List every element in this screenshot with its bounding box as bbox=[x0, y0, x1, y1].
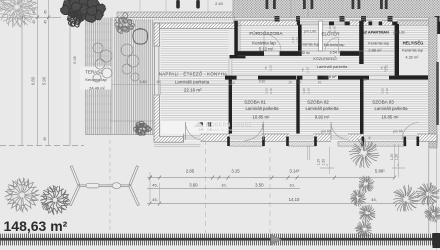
downpipe lines under window B bbox=[308, 145, 310, 160]
corridor wall black segment x338 bbox=[338, 76, 369, 80]
svg-text:24.49 m²: 24.49 m² bbox=[89, 86, 105, 91]
house left wall upper hatch bbox=[154, 23, 160, 46]
svg-text:6.80: 6.80 bbox=[31, 76, 36, 85]
insulation dotted band bbox=[112, 18, 236, 20]
dim tick row1 x212.5 bbox=[211, 176, 214, 180]
svg-text:2,10: 2,10 bbox=[269, 88, 273, 94]
direction triangle bbox=[271, 234, 282, 246]
svg-text:10: 10 bbox=[288, 81, 292, 85]
dandelion column 1 bbox=[349, 139, 380, 168]
svg-text:Laminált parketta: Laminált parketta bbox=[306, 106, 340, 111]
window mark x303 bbox=[303, 0, 306, 9]
site boundary line top-left bbox=[0, 16, 61, 18]
dim tick row1 x334.5 bbox=[333, 176, 336, 180]
watermark logo bbox=[194, 122, 204, 128]
wall jamb x344.6 bbox=[345, 22, 350, 35]
wall jamb x329 bbox=[329, 22, 334, 35]
dim guides vertical right bbox=[330, 144, 399, 178]
deck apple plant bbox=[133, 28, 148, 44]
svg-text:1,00: 1,00 bbox=[302, 88, 306, 94]
nappali terrace door arc bbox=[186, 122, 204, 140]
deck bottom plant bbox=[134, 121, 152, 135]
dark shrub cluster bbox=[63, 0, 74, 11]
planting circle (127,50) bbox=[121, 44, 133, 56]
south wall opening x331 bbox=[331, 134, 348, 142]
north wall inner hatch segment x349.7 bbox=[350, 21, 372, 26]
ticks on boundary line bbox=[21, 16, 51, 20]
door gap lines x229 y58-77 bbox=[229, 58, 232, 77]
wall nappali/furdoszoba black bbox=[234, 21, 238, 56]
szoba02/03 wall black bbox=[360, 78, 364, 138]
svg-text:=: = bbox=[326, 164, 328, 168]
dim tick row2 x150 bbox=[149, 176, 152, 180]
helyiseg bottom wall black bbox=[397, 75, 429, 79]
svg-text:pm 1,80: pm 1,80 bbox=[393, 31, 405, 35]
south wall jamb x286.2 bbox=[286, 137, 289, 147]
svg-text:3.15: 3.15 bbox=[231, 169, 240, 174]
north exterior wall masonry band bbox=[233, 0, 440, 17]
fence dark line bbox=[0, 238, 440, 241]
terrace tile strips bbox=[86, 18, 112, 135]
svg-text:2.85: 2.85 bbox=[186, 169, 195, 174]
north wall inner hatch segment x233.6 bbox=[234, 21, 297, 26]
corridor floor bbox=[232, 55, 394, 76]
black segment corridor top 1 bbox=[237, 51, 265, 56]
svg-text:1,50: 1,50 bbox=[322, 159, 326, 166]
svg-text:Kerámia lap: Kerámia lap bbox=[368, 40, 389, 45]
svg-text:2,10: 2,10 bbox=[306, 67, 310, 73]
svg-text:1,00: 1,00 bbox=[381, 88, 385, 94]
svg-text:10.85 m²: 10.85 m² bbox=[253, 115, 271, 120]
svg-text:SZOBA 02: SZOBA 02 bbox=[307, 100, 329, 105]
bottom exterior wall hatch bbox=[184, 134, 438, 142]
window mark x384.8 bbox=[385, 0, 388, 9]
svg-text:1,00: 1,00 bbox=[343, 19, 347, 25]
top wall opening lines bbox=[297, 22, 437, 25]
window mark x351.5 bbox=[352, 0, 355, 9]
south wall jamb x416.5 bbox=[417, 137, 420, 147]
szoba01 door arc bbox=[244, 122, 263, 141]
window frame bar x296 bbox=[296, 16, 300, 22]
svg-text:2,10: 2,10 bbox=[383, 66, 387, 72]
deck bottom edge bbox=[86, 134, 155, 136]
svg-text:SZOBA 01: SZOBA 01 bbox=[244, 100, 266, 105]
wall jamb x378.7 bbox=[379, 22, 382, 35]
dim row2 line bbox=[147, 188, 300, 190]
corridor wall black segment x297 bbox=[297, 76, 302, 80]
svg-text:45: 45 bbox=[44, 10, 48, 14]
planting circle (100,64) bbox=[95, 59, 105, 69]
dandelion column 3 bbox=[350, 190, 366, 207]
big tree top-left bbox=[0, 0, 38, 28]
wall jamb x392.4 bbox=[392, 22, 397, 35]
deck shrub 1 bbox=[115, 12, 135, 33]
svg-text:10,: 10, bbox=[221, 183, 226, 188]
svg-text:3.50: 3.50 bbox=[255, 183, 264, 188]
dim tick row3 x433 bbox=[432, 202, 435, 206]
svg-text:1,00: 1,00 bbox=[265, 88, 269, 94]
svg-text:14,10: 14,10 bbox=[289, 197, 300, 202]
dim tick row3 x159.5 bbox=[158, 202, 161, 206]
svg-text:pm 1,80: pm 1,80 bbox=[304, 30, 316, 34]
planting circle (127,69) bbox=[122, 64, 132, 74]
dim tick row2 x288 bbox=[287, 176, 290, 180]
dim row1 line bbox=[147, 177, 395, 179]
house left wall lower hatch (corner) bbox=[154, 95, 184, 142]
left wall window double line bbox=[155, 46, 159, 95]
dandelion right big 1 bbox=[393, 185, 420, 212]
plot line x70 bbox=[69, 0, 71, 146]
svg-text:1,20: 1,20 bbox=[317, 159, 321, 166]
svg-text:2,10: 2,10 bbox=[385, 88, 389, 94]
north wall inner hatch segment x382 bbox=[382, 21, 392, 26]
eloter door arc bbox=[325, 38, 339, 52]
south wall jamb x227.2 bbox=[227, 137, 230, 147]
svg-text:1,20: 1,20 bbox=[390, 154, 394, 161]
svg-text:Kerámia lap: Kerámia lap bbox=[402, 47, 423, 52]
svg-text:Kerámia lap: Kerámia lap bbox=[298, 41, 319, 46]
svg-text:45,: 45, bbox=[371, 197, 376, 202]
window sill 2 bbox=[288, 141, 316, 146]
svg-text:2.SZ APARTMAN: 2.SZ APARTMAN bbox=[359, 31, 389, 35]
svg-text:2,10: 2,10 bbox=[269, 65, 273, 71]
planting circle (98,48) bbox=[93, 43, 103, 53]
svg-text:KÖZLEKEDŐ: KÖZLEKEDŐ bbox=[313, 56, 336, 61]
svg-text:2,10: 2,10 bbox=[291, 37, 295, 43]
wall wc/eloter double bbox=[319, 21, 323, 51]
plot line x37.5 bbox=[37, 0, 39, 146]
svg-text:45,: 45, bbox=[152, 183, 157, 188]
svg-text:1.60 m²: 1.60 m² bbox=[298, 51, 311, 55]
south wall jamb x262.2 bbox=[262, 137, 265, 147]
threshold lines bottom-left bbox=[154, 144, 201, 146]
window sill 1 bbox=[229, 141, 264, 146]
szoba03 floor bbox=[364, 80, 429, 135]
furdoszoba door arc bbox=[264, 34, 281, 51]
wall black bar horizontal y55 bbox=[230, 55, 246, 58]
svg-text:5.12 m²: 5.12 m² bbox=[259, 47, 274, 52]
svg-text:1,50: 1,50 bbox=[395, 154, 399, 161]
dandelion right big 2 bbox=[416, 182, 439, 206]
svg-text:pm 90: pm 90 bbox=[321, 130, 331, 134]
svg-text:pm 90: pm 90 bbox=[393, 130, 403, 134]
szoba03 door arc bbox=[402, 123, 419, 140]
svg-text:2,10: 2,10 bbox=[307, 88, 311, 94]
south wall opening x230 bbox=[230, 134, 262, 142]
planting circle (135,77) bbox=[131, 73, 139, 81]
svg-text:45: 45 bbox=[43, 137, 47, 141]
svg-text:9.05: 9.05 bbox=[72, 55, 77, 64]
svg-text:75: 75 bbox=[264, 66, 268, 70]
window mark x310.5 bbox=[311, 0, 314, 9]
window frame bar x434.5 bbox=[435, 16, 440, 22]
svg-text:Laminált parketta: Laminált parketta bbox=[246, 106, 280, 111]
dim tick row2 x159.5 bbox=[158, 176, 161, 180]
right exterior wall masonry bbox=[429, 17, 437, 148]
svg-text:SZOBA 03: SZOBA 03 bbox=[372, 100, 394, 105]
szoba01 floor bbox=[232, 80, 296, 135]
wall furdo/wc double bbox=[298, 25, 302, 56]
dim tick row1 x150.5 bbox=[149, 176, 152, 180]
deck edge double line bbox=[112, 18, 115, 135]
dim tick row3 x150 bbox=[149, 202, 152, 206]
svg-text:2,40: 2,40 bbox=[328, 26, 332, 32]
deck dim line y84 bbox=[112, 80, 161, 121]
svg-text:45: 45 bbox=[44, 20, 48, 24]
svg-text:Laminált parketta: Laminált parketta bbox=[175, 80, 210, 85]
svg-text:családi ház tervek: családi ház tervek bbox=[209, 128, 235, 132]
dark round bush bbox=[67, 10, 82, 27]
svg-text:HELYISÉG: HELYISÉG bbox=[403, 40, 424, 45]
svg-text:=: = bbox=[397, 164, 399, 168]
plot line x22 bbox=[21, 0, 23, 146]
nappali floor bbox=[161, 30, 229, 135]
wall under top rooms y51-56 bbox=[238, 51, 394, 56]
svg-text:3.40: 3.40 bbox=[140, 80, 147, 84]
dim tick row1 x272 bbox=[271, 176, 274, 180]
svg-text:45: 45 bbox=[32, 20, 36, 24]
svg-text:3.54 m²: 3.54 m² bbox=[329, 49, 343, 54]
szoba02 door arc bbox=[331, 122, 349, 140]
svg-text:1,40: 1,40 bbox=[333, 26, 337, 32]
corridor wall black segment x317.5 bbox=[318, 76, 329, 80]
dim tick row2 x297 bbox=[296, 176, 299, 180]
dim tick row2 x219 bbox=[218, 176, 221, 180]
svg-text:148,63 m²: 148,63 m² bbox=[4, 218, 68, 234]
pergola post 2 bbox=[196, 0, 200, 9]
svg-text:NAPPALI - ÉTKEZŐ - KONYHA: NAPPALI - ÉTKEZŐ - KONYHA bbox=[159, 71, 227, 76]
corridor wall black segment x225 bbox=[225, 76, 237, 80]
right vertical dim line bbox=[436, 135, 438, 250]
top rooms floor strip bbox=[240, 25, 428, 51]
window frame bar x361 bbox=[361, 16, 366, 22]
svg-text:45: 45 bbox=[156, 80, 160, 84]
dim tick row1 x394.5 bbox=[393, 176, 396, 180]
main inner black wall vertical bbox=[229, 78, 232, 137]
svg-text:2,40: 2,40 bbox=[261, 124, 265, 130]
eaves hatch band over deck bbox=[117, 12, 235, 17]
terrace boundary bbox=[85, 0, 87, 135]
svg-text:10: 10 bbox=[228, 81, 232, 85]
nappali door posts bbox=[199, 122, 203, 126]
svg-text:80: 80 bbox=[363, 78, 367, 82]
svg-text:10: 10 bbox=[318, 81, 322, 85]
sun lounger bbox=[69, 166, 139, 206]
deck line y121 bbox=[110, 120, 154, 122]
dandelion column 4 bbox=[359, 205, 375, 222]
svg-text:10: 10 bbox=[298, 81, 302, 85]
wood deck boards bbox=[115, 20, 154, 135]
pergola post 1 bbox=[176, 0, 180, 9]
dim marks above right bbox=[320, 167, 405, 169]
wall eloter/apartman black bbox=[359, 21, 363, 64]
nappali top wall hatch bbox=[154, 23, 235, 29]
dim tick row2 x228 bbox=[227, 176, 230, 180]
svg-text:10,: 10, bbox=[289, 183, 294, 188]
tree ball bottom-left 1 bbox=[5, 178, 40, 213]
window frame bar x387.5 bbox=[388, 16, 393, 22]
svg-text:1,00: 1,00 bbox=[296, 37, 300, 43]
north wall inner hatch segment x397.5 bbox=[398, 21, 437, 26]
svg-text:Kerámia lap: Kerámia lap bbox=[252, 41, 276, 46]
window mark x357.5 bbox=[358, 0, 361, 9]
dashed axis line x110 bbox=[109, 140, 111, 233]
svg-text:2.40: 2.40 bbox=[215, 1, 224, 6]
dandelion column 2 bbox=[359, 176, 375, 193]
south wall jamb x314.2 bbox=[314, 137, 317, 147]
fence comb below bbox=[0, 241, 440, 246]
band grid lines bbox=[291, 0, 308, 17]
corridor wall black segment x258 bbox=[258, 76, 296, 80]
svg-text:2,40: 2,40 bbox=[199, 129, 204, 132]
corridor wall black segment x389 bbox=[389, 76, 428, 80]
svg-text:75: 75 bbox=[301, 68, 305, 72]
svg-text:5.86⁵: 5.86⁵ bbox=[375, 169, 385, 174]
south wall jamb x403.5 bbox=[404, 137, 407, 147]
plot line x48.5 bbox=[48, 0, 50, 146]
svg-text:22.16 m²: 22.16 m² bbox=[184, 87, 202, 92]
dim row3 line bbox=[147, 203, 433, 205]
wall jamb x436.7 bbox=[437, 22, 440, 35]
wall jamb x297 bbox=[297, 22, 300, 35]
szoba02 floor bbox=[300, 80, 360, 135]
window mark x273 bbox=[273, 0, 276, 9]
svg-text:8.86 m²: 8.86 m² bbox=[324, 75, 338, 79]
tree ball bottom-left 2 bbox=[40, 185, 70, 215]
window frame bar x339.5 bbox=[340, 16, 345, 22]
planting circle (107,73) bbox=[102, 68, 112, 78]
svg-text:2.88 m²: 2.88 m² bbox=[368, 48, 382, 53]
dashed axis line x270 bbox=[269, 148, 271, 233]
svg-text:45: 45 bbox=[368, 136, 372, 140]
south wall opening x289 bbox=[289, 134, 314, 142]
south wall jamb x361.5 bbox=[362, 137, 365, 147]
svg-text:45,: 45, bbox=[152, 197, 157, 202]
fence comb above bbox=[0, 234, 440, 238]
svg-text:10.85 m²: 10.85 m² bbox=[382, 115, 400, 120]
corridor bottom wall base lines bbox=[225, 76, 436, 80]
dashed setback line horizontal bbox=[0, 145, 84, 147]
fence corner block bbox=[433, 233, 440, 248]
window mark x265.5 bbox=[266, 0, 269, 9]
planting circle (97,78) bbox=[93, 74, 101, 82]
svg-text:3.14⁵: 3.14⁵ bbox=[289, 169, 299, 174]
svg-text:3.60: 3.60 bbox=[189, 183, 198, 188]
svg-text:9.50: 9.50 bbox=[259, 80, 266, 84]
south wall opening x364 bbox=[364, 134, 417, 142]
window frame bar x274.5 bbox=[275, 16, 280, 22]
svg-text:FÜRDŐSZOBA: FÜRDŐSZOBA bbox=[249, 30, 283, 37]
svg-text:Laminált parketta: Laminált parketta bbox=[317, 64, 348, 69]
dashed axis line x205 bbox=[205, 140, 207, 233]
black segment corridor top 2 bbox=[280, 51, 299, 56]
wall apartman/helyiseg black bbox=[395, 24, 399, 78]
top dim guides bbox=[140, 0, 233, 12]
svg-text:Kerámia lap: Kerámia lap bbox=[324, 42, 345, 47]
svg-text:Kerámia lap: Kerámia lap bbox=[85, 77, 107, 82]
svg-text:4.32 m²: 4.32 m² bbox=[405, 55, 419, 60]
svg-text:TERASZ: TERASZ bbox=[85, 70, 103, 75]
dandelion column 5 bbox=[355, 220, 372, 237]
svg-text:5.90: 5.90 bbox=[42, 76, 47, 85]
window sill 3 bbox=[338, 141, 406, 146]
svg-text:9.92 m²: 9.92 m² bbox=[315, 115, 330, 120]
dim left guides bbox=[150, 172, 160, 204]
planting circle (133,61) bbox=[127, 55, 139, 67]
svg-text:Laminált parketta: Laminált parketta bbox=[375, 106, 409, 111]
terrace label box bbox=[80, 67, 111, 90]
window mark x380 bbox=[380, 0, 383, 9]
dandelion right small 3 bbox=[424, 205, 440, 223]
planting circle (106,56) bbox=[100, 50, 112, 62]
right wall dark line bbox=[436, 62, 439, 125]
black segment corridor top 3 bbox=[340, 51, 359, 56]
szoba01/02 wall black bbox=[296, 80, 299, 135]
wall jamb x368.5 bbox=[369, 22, 373, 35]
south wall opening x184.0 bbox=[184, 134, 201, 142]
